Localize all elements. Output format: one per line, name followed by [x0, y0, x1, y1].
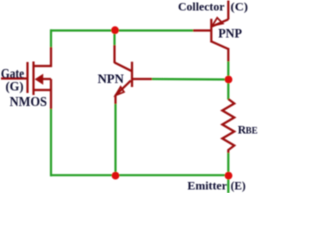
NPN Q2 emitter lead [114, 95, 116, 104]
svg-text:(C): (C) [231, 2, 249, 14]
NPN Q2 base bar [131, 62, 133, 87]
NMOS Q1 body arrow [35, 74, 44, 85]
NMOS Q1 gate bar [26, 62, 28, 93]
PNP Q3 base lead dark red [193, 29, 211, 31]
wire PNP collector green [227, 62, 229, 80]
NMOS Q1 drain lead [34, 65, 53, 67]
wire bottom horizontal green [50, 174, 229, 176]
wire top horizontal green [50, 29, 193, 31]
junction dot node top (NPN collector / top rail) [111, 26, 119, 34]
wire NPN base to node green [152, 78, 229, 81]
svg-text:BE: BE [246, 126, 258, 136]
wire NPN collector green [113, 31, 115, 46]
NPN Q2 collector lead [113, 45, 115, 63]
svg-text:PNP: PNP [218, 26, 242, 41]
svg-text:Collector: Collector [178, 2, 225, 14]
junction dot node bottom left (NPN emitter / bottom rail) [112, 172, 120, 180]
junction dot node emitter terminal [225, 172, 233, 180]
wire node to resistor green [227, 80, 229, 100]
NPN Q2 emitter diagonal [115, 81, 130, 96]
junction dot node base (NPN base / PNP collector / RBE) [225, 76, 233, 84]
PNP Q3 collector diagonal [212, 42, 229, 50]
PNP Q3 emitter diagonal [212, 19, 229, 26]
wire left vertical green upper [50, 29, 52, 47]
wire left vertical green lower [50, 109, 52, 176]
svg-text:(E): (E) [231, 179, 246, 193]
wire resistor to bottom green [227, 153, 229, 193]
svg-text:Emitter: Emitter [187, 179, 227, 193]
PNP Q3 collector lead [227, 48, 229, 62]
resistor RBE zigzag [222, 99, 234, 153]
wire NPN emitter green [114, 104, 116, 176]
PNP Q3 emitter arrowhead [212, 18, 223, 26]
NMOS Q1 channel bar [32, 62, 34, 96]
wire left vertical dark red drain segment [50, 47, 52, 67]
NPN Q2 collector diagonal [115, 63, 132, 72]
svg-text:(G): (G) [6, 79, 24, 94]
PNP Q3 base bar [210, 19, 212, 43]
svg-text:NMOS: NMOS [10, 95, 48, 110]
NPN Q2 base lead [132, 78, 152, 80]
NPN Q2 emitter arrowhead [115, 87, 124, 96]
NMOS Q1 gate lead [1, 77, 28, 79]
svg-text:NPN: NPN [98, 71, 125, 86]
NMOS Q1 source lead [34, 89, 53, 91]
NMOS Q1 body lead [43, 78, 52, 80]
wire PNP emitter top dark red [227, 1, 229, 20]
NMOS Q1 body-source connector [50, 79, 52, 90]
wire left vertical dark red source segment [50, 90, 52, 109]
